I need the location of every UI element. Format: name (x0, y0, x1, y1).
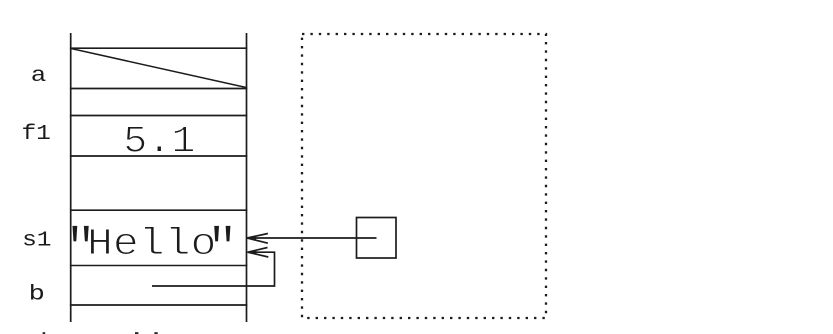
svg-text:a: a (31, 64, 47, 88)
arrowhead of b pointer at s1 cell (248, 248, 269, 258)
svg-text:": " (65, 220, 96, 279)
row line 6 (bottom of cell s1) (70, 265, 247, 267)
arrow shaft from square to s1 cell (249, 237, 377, 239)
row line 1 (top of cell a) (70, 47, 247, 49)
cut-off text mark 3 at bottom edge (154, 332, 157, 334)
arrowhead tip fill b (248, 250, 257, 255)
svg-text:": " (207, 220, 238, 279)
row line 5 (top of cell s1) (70, 209, 247, 211)
svg-text:s1: s1 (22, 228, 51, 252)
heap object small square (357, 218, 397, 259)
svg-text:f1: f1 (21, 121, 50, 145)
row line 4 (bottom of cell f1) (70, 155, 247, 157)
cut-off text mark 1 at bottom edge (43, 332, 46, 334)
row line 3 (top of cell f1) (70, 115, 247, 117)
stack column right vertical line (246, 33, 248, 322)
svg-text:Hello: Hello (87, 223, 217, 266)
dotted heap rectangle (302, 34, 546, 318)
svg-text:b: b (29, 283, 45, 306)
svg-text:5.1: 5.1 (123, 119, 195, 163)
arrowhead at s1 cell (247, 234, 268, 244)
row line 7 (bottom of cell b) (70, 304, 247, 306)
arrowhead tip fill s1 (247, 235, 256, 240)
pointer loop from cell b: shaft right, down, into cell b (152, 252, 275, 286)
stack column left vertical line (70, 33, 72, 322)
cut-off text mark 2 at bottom edge (135, 332, 138, 334)
diagonal slash in cell a (71, 49, 246, 88)
row line 2 (bottom of cell a) (70, 88, 247, 90)
